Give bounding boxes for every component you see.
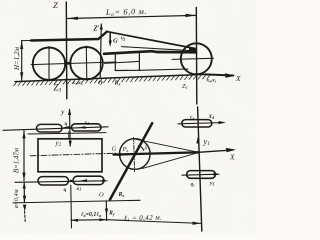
plan front axle vertical line [198,107,202,231]
dual gap knot bottom [70,180,73,183]
lv right arrowhead [99,218,106,221]
body centerline dash dot [30,153,116,156]
dimension Lo right arrow [186,14,197,17]
X4 axis arrowhead [219,121,227,124]
svg-text:ℓ1 = 0,42 м.: ℓ1 = 0,42 м. [124,214,162,223]
svg-text:Rx: Rx [118,192,125,198]
wheel tyre bottom left rear [73,176,104,184]
front wheel vertical axis line [195,7,198,104]
svg-text:c4: c4 [190,116,194,121]
plan origin junction dot [197,151,200,154]
front hub blob [189,48,197,54]
cab bottom line [115,69,139,71]
left wheels axle extension line [3,127,108,131]
bottom axle right arrowhead [102,180,109,183]
bottom dimension line l1 [106,220,201,224]
plan X axis arrowhead [226,148,236,152]
body rectangle plan [38,139,102,172]
frame top thick line [104,51,196,54]
body platform top line [31,32,107,41]
dimension H bottom arrow [20,72,23,81]
dimension Lo line [68,15,197,18]
svg-text:Pк: Pк [122,146,129,153]
node Z prime arrowhead [100,24,103,30]
roof slope line [107,32,195,49]
svg-text:q1: q1 [191,183,196,188]
svg-text:x2,x3: x2,x3 [72,80,83,86]
front wheel circle [181,43,212,74]
l1 right arrowhead [193,222,201,225]
svg-text:O: O [99,192,104,199]
dual wheel gap tick top [68,132,70,139]
svg-text:Rx: Rx [114,81,121,87]
plan Y axis down arrowhead [69,141,72,147]
svg-text:ц: ц [65,122,68,127]
force G arrow [109,34,111,44]
svg-text:Ry: Ry [108,211,115,217]
rear wheel 2 circle [70,47,102,79]
svg-text:X: X [235,74,241,83]
svg-text:Z1: Z1 [182,83,188,90]
front right wheel tyre plan [182,120,212,127]
rear wheel 1 vertical centerline [48,47,50,82]
reaction Ry arrowhead [105,209,108,216]
X axis side view arrowhead [225,73,236,77]
front lower wheel axle line [182,174,218,175]
cab right vertical [138,52,140,71]
rear wheel 1 circle [33,48,65,80]
svg-text:ℓв=0,1ℓа: ℓв=0,1ℓа [81,212,101,218]
dimension Lo left arrow [68,17,79,20]
node Z prime axis [100,24,101,78]
dimension b tail [24,211,27,222]
dimension b small line [23,182,25,203]
dual gap knot top [68,126,71,129]
svg-text:X4: X4 [208,114,215,120]
dimension b bottom arrow [23,196,26,203]
bogie centre extension line [70,185,73,228]
rear axle horizontal centerline [31,62,116,65]
ground line [15,74,205,81]
svg-text:X: X [229,153,235,162]
traction arrowhead left [113,153,122,157]
svg-text:Z: Z [53,0,58,10]
ground hatching [14,74,211,86]
cab mid line [105,61,140,63]
dimension H top arrow [20,41,23,50]
dimension H line [21,41,23,81]
svg-text:H=1,2м: H=1,2м [13,46,21,71]
cab left vertical [114,54,116,71]
steered wheel plane diagonal [110,123,152,199]
svg-text:G: G [113,38,118,45]
wheel tyre top left rear [72,124,102,131]
tangent cone lower line [142,153,199,169]
svg-text:в=0,4м: в=0,4м [13,189,20,208]
angle lambda arc [139,146,144,151]
bottom wheels axle line [15,181,105,183]
svg-text:O: O [98,80,103,87]
dimension B line [23,131,25,181]
paper grain overlay [0,0,256,234]
svg-text:G: G [112,147,117,153]
node Z axis rear vertical [65,2,68,99]
svg-text:x1: x1 [84,120,90,126]
front right wheel axle line [178,123,223,124]
svg-text:½: ½ [121,36,126,43]
frame bottom line [139,69,188,70]
svg-text:y3: y3 [209,181,214,187]
paper blotch overlay [0,0,256,234]
svg-text:y: y [60,107,65,116]
steering wheel circle [120,139,151,170]
svg-text:B=1,47м: B=1,47м [14,147,21,173]
lv left arrowhead [71,219,78,222]
steering wheel vertical dash line [134,138,135,172]
dimension B bottom arrow [22,173,25,181]
bottom dimension line lv [71,219,107,222]
svg-text:x0,x1: x0,x1 [206,78,217,84]
force G arrowhead [109,41,112,48]
plan X axis line [199,150,234,152]
arrow inside top wheel 1 [63,126,70,129]
wheel tyre bottom left front [38,177,69,185]
secondary hood line [122,47,195,51]
tangent cone upper line [133,139,199,153]
svg-text:Z′: Z′ [93,26,100,33]
plan Y axis upper [69,110,72,147]
plan baseline through O [13,200,140,203]
plan Y1 axis arrowhead [196,137,199,144]
plan Y axis up arrowhead [68,109,71,116]
front wheel horizontal centerline [172,58,214,59]
reaction Ry line [105,201,107,221]
traction thick line [114,152,199,154]
lower axle arrowhead [214,173,221,176]
svg-text:x1: x1 [76,186,82,192]
rear wheel 2 vertical centerline [85,46,88,80]
line under top wheels [28,133,106,134]
wheel tyre top left front [37,124,63,132]
svg-text:ц: ц [64,188,67,193]
svg-text:λ: λ [144,146,148,152]
body top extension line [22,40,31,42]
arrow inside bottom wheel 2 [80,179,87,182]
dimension b lower arrow below line [23,205,27,212]
X axis side view arrow line [205,74,233,75]
arrow inside top wheel 2 [79,126,86,129]
dimension B top arrow [22,131,25,139]
dimension b top arrow [23,182,26,189]
front lower wheel tyre plan [187,171,216,179]
bogie pivot blob [67,62,70,65]
